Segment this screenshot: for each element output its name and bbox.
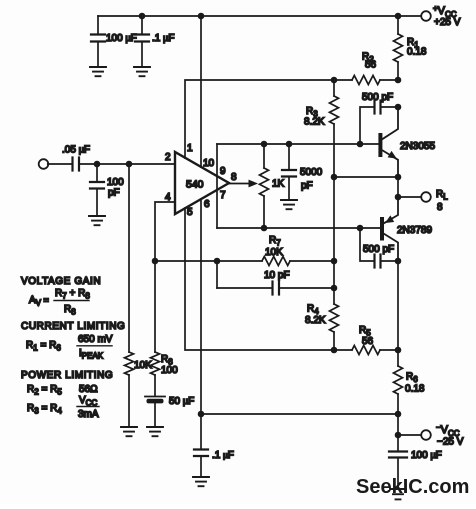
svg-text:8.2K: 8.2K <box>305 315 326 326</box>
junction dot -Vcc rail left <box>198 411 205 418</box>
label pin 9 <box>220 166 226 177</box>
svg-text:56: 56 <box>365 60 377 71</box>
label R2 56 <box>362 52 377 71</box>
wire emitter down to RL node <box>397 177 399 197</box>
svg-text:pF: pF <box>108 188 120 199</box>
wire input node down to 10K <box>128 164 130 352</box>
svg-text:10 pF: 10 pF <box>264 270 290 281</box>
resistor R7 10K <box>262 257 334 266</box>
resistor R1 <box>394 16 403 80</box>
label pin 7 <box>220 190 226 201</box>
label R1 0.18 <box>407 37 427 58</box>
resistor 10K (to ground) <box>125 352 134 426</box>
text Av formula <box>29 288 90 317</box>
capacitor 50uF (electrolytic) <box>145 397 165 427</box>
wire feedback node (pin4) to R7 <box>155 260 262 262</box>
ground (bottom right 100uF) <box>390 489 406 499</box>
resistor R5 <box>334 346 398 355</box>
ground (top-left 100uF) <box>90 67 106 76</box>
svg-text:5: 5 <box>187 207 193 218</box>
label .1uF <box>152 33 174 44</box>
svg-text:6: 6 <box>204 199 210 210</box>
svg-text:2: 2 <box>165 152 171 163</box>
svg-text:−25 V: −25 V <box>437 437 464 448</box>
resistor R2 <box>334 76 398 85</box>
wire pin 6 down to -Vcc rail <box>200 199 202 414</box>
label .1uF bottom <box>212 450 234 461</box>
label 5000pF <box>300 167 323 192</box>
transistor Q1 2N3055 <box>380 107 398 177</box>
svg-text:10: 10 <box>203 158 215 169</box>
svg-text:7: 7 <box>220 190 226 201</box>
junction dot R4/R5/pin5 <box>331 347 338 354</box>
svg-text:56Ω: 56Ω <box>79 384 98 395</box>
junction dot feedback/pin4 <box>152 258 159 265</box>
svg-text:540: 540 <box>186 179 204 191</box>
label 100uF <box>106 33 137 44</box>
terminal +Vcc <box>421 11 431 21</box>
junction dot R2/R3/pin1 <box>331 77 338 84</box>
potentiometer 1K <box>260 144 269 228</box>
capacitor .05uF input <box>48 158 175 171</box>
ground (100pF) <box>89 216 105 225</box>
wire pin 10 to +Vcc rail <box>200 16 202 167</box>
text CURRENT LIMITING <box>21 321 125 332</box>
label 100pF <box>107 177 124 199</box>
svg-text:1: 1 <box>187 143 193 154</box>
capacitor .1uF (bottom) <box>194 414 208 476</box>
svg-text:0.18: 0.18 <box>405 384 425 395</box>
junction dot top rail / R1 <box>395 13 402 20</box>
label .05uF <box>62 145 90 156</box>
junction dot 1K top <box>261 141 268 148</box>
svg-text:100: 100 <box>161 365 178 376</box>
svg-text:2N3789: 2N3789 <box>397 225 432 236</box>
svg-text:CURRENT LIMITING: CURRENT LIMITING <box>21 321 125 332</box>
capacitor C 100uF (top left) <box>91 16 105 66</box>
svg-text:8: 8 <box>231 172 237 183</box>
label pin 8 <box>231 172 237 183</box>
junction dot bus/10pF <box>331 285 338 292</box>
junction dot 1K bottom <box>261 225 268 232</box>
junction dot R1/R2 <box>395 77 402 84</box>
label 100uF bottom <box>411 450 442 461</box>
svg-text:.1 µF: .1 µF <box>152 33 174 44</box>
svg-text:VOLTAGE GAIN: VOLTAGE GAIN <box>21 276 101 287</box>
capacitor 500pF (lower) <box>360 228 398 268</box>
wire R6 node down <box>397 414 399 435</box>
svg-text:100 µF: 100 µF <box>411 450 442 461</box>
wire base Q1 (from node box) <box>217 143 379 145</box>
capacitor 500pF (upper) <box>360 101 398 145</box>
wire collector Q2 down to R5/R6 node <box>397 261 399 350</box>
transistor Q2 2N3789 <box>382 197 398 261</box>
capacitor C 100uF (bottom right) <box>389 435 407 487</box>
label pin 2 <box>165 152 171 163</box>
junction dot bus/R7 <box>331 258 338 265</box>
wire bus R3 down to R4 <box>333 124 335 304</box>
ground (top .1uF) <box>134 67 150 76</box>
junction dot emitter/x398 <box>395 174 402 181</box>
wire +Vcc top rail <box>98 15 421 17</box>
terminal input <box>39 159 49 169</box>
label R8 100 <box>161 354 178 376</box>
label 10pF <box>264 270 290 281</box>
junction dot -Vcc rail right <box>395 411 402 418</box>
terminal RL <box>421 192 431 202</box>
text R2=R5 56ohm <box>27 384 98 397</box>
capacitor C .1uF (top) <box>135 16 149 66</box>
ground (5000pF) <box>281 200 297 209</box>
wire 10pF branch vertical <box>216 261 218 288</box>
op-amp U1 540 <box>175 152 229 214</box>
label 2N3055 <box>400 141 435 152</box>
wire to RL terminal <box>398 196 422 198</box>
ground (10K) <box>121 427 137 436</box>
text R3=R4 Vcc/3mA <box>27 395 99 420</box>
svg-text:50 µF: 50 µF <box>169 396 194 407</box>
label pin 6 <box>204 199 210 210</box>
svg-text:500 pF: 500 pF <box>363 244 394 255</box>
svg-text:R7 + R8: R7 + R8 <box>55 288 90 301</box>
label pin 10 <box>203 158 215 169</box>
junction dot feedback/10pF branch <box>214 258 221 265</box>
capacitor 100pF <box>90 164 104 215</box>
label 1K <box>272 179 285 190</box>
label 50uF <box>169 396 194 407</box>
resistor R4 <box>330 304 339 350</box>
svg-text:10K: 10K <box>265 247 283 258</box>
svg-text:5000: 5000 <box>300 167 323 178</box>
label R7 10K <box>265 235 283 258</box>
junction dot collector Q2/500pF <box>395 258 402 265</box>
junction dot R5/R6 <box>395 347 402 354</box>
svg-text:0.18: 0.18 <box>407 47 427 58</box>
label +Vcc <box>433 4 461 28</box>
svg-text:8: 8 <box>437 202 443 213</box>
label R5 56 <box>359 325 374 347</box>
svg-text:1K: 1K <box>272 179 285 190</box>
junction dot bus/emitter wire <box>331 174 338 181</box>
svg-text:pF: pF <box>301 181 313 192</box>
svg-text:SeekIC.com: SeekIC.com <box>356 476 469 498</box>
resistor R3 <box>330 80 339 124</box>
svg-text:100: 100 <box>107 177 124 188</box>
svg-text:R1 = R6: R1 = R6 <box>26 340 61 353</box>
wire pin 1 to R2/R3 node <box>185 80 334 158</box>
svg-text:3mA: 3mA <box>78 409 99 420</box>
svg-text:R3 = R4: R3 = R4 <box>27 403 62 416</box>
wire base Q2 (from node box) <box>217 227 380 229</box>
text R1=R6 formula <box>26 334 113 361</box>
svg-text:.1 µF: .1 µF <box>212 450 234 461</box>
junction dot -Vcc terminal node <box>395 432 402 439</box>
label -Vcc <box>436 423 464 448</box>
text POWER LIMITING <box>21 370 113 381</box>
capacitor 5000pF <box>282 144 296 199</box>
svg-text:9: 9 <box>220 166 226 177</box>
svg-text:R2 = R5: R2 = R5 <box>27 384 62 397</box>
svg-text:POWER LIMITING: POWER LIMITING <box>21 370 113 381</box>
capacitor 10pF <box>217 282 334 295</box>
junction dot base Q2/500pF <box>357 225 364 232</box>
svg-text:+25 V: +25 V <box>434 17 461 28</box>
wire -Vcc rail <box>201 413 398 415</box>
label 10K (to ground) <box>134 360 152 371</box>
junction dot top rail / pin 10 line <box>198 13 205 20</box>
label RL 8 <box>436 189 448 213</box>
svg-text:.05 µF: .05 µF <box>62 145 90 156</box>
label 2N3789 <box>397 225 432 236</box>
label pin 4 <box>165 192 171 203</box>
wire emitter Q1 to bus <box>334 176 398 178</box>
ground (bottom .1uF) <box>193 477 209 486</box>
svg-text:650 mV: 650 mV <box>78 334 113 345</box>
label R6 0.18 <box>405 372 425 395</box>
label pin 1 <box>187 143 193 154</box>
svg-text:2N3055: 2N3055 <box>400 141 435 152</box>
wire pin 4 down <box>155 202 175 352</box>
wire pin 5 down and right to R4/R5 <box>185 208 334 350</box>
junction dot 500pF/base wire <box>357 141 364 148</box>
label 500pF upper <box>362 92 393 103</box>
svg-text:100 µF: 100 µF <box>106 33 137 44</box>
wire to -Vcc terminal <box>398 434 422 436</box>
junction dot input/100pF <box>94 161 101 168</box>
wire node-box left edge (pins 9,7) <box>216 144 218 228</box>
ground (50uF) <box>147 427 163 436</box>
resistor R8 100 <box>151 352 160 396</box>
svg-text:8.2K: 8.2K <box>304 117 325 128</box>
junction dot top rail / .1uF <box>139 13 146 20</box>
label R3 8.2K <box>304 106 325 128</box>
label R4 8.2K <box>305 304 326 327</box>
svg-text:500 pF: 500 pF <box>362 92 393 103</box>
resistor R6 <box>394 350 403 414</box>
wiper arrow (op-amp output to 1K) <box>229 180 258 188</box>
junction dot input/divider <box>126 161 133 168</box>
junction dot RL node <box>395 194 402 201</box>
watermark SeekIC.com <box>356 476 469 498</box>
svg-text:56: 56 <box>362 336 374 347</box>
label pin 5 <box>187 207 193 218</box>
label 500pF lower <box>363 244 394 255</box>
junction dot 500pF/collector <box>395 104 402 111</box>
junction dot 5000pF top <box>286 141 293 148</box>
text VOLTAGE GAIN <box>21 276 101 287</box>
terminal -Vcc <box>421 430 431 440</box>
